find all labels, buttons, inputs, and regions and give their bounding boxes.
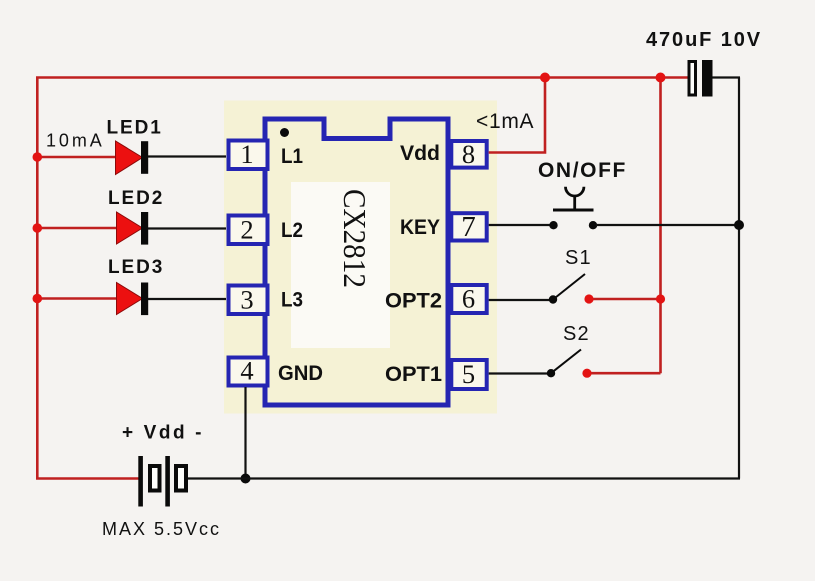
switch S1 lever [553,274,585,300]
svg-text:2: 2 [240,215,253,245]
wire black right rail vertical [738,78,740,479]
svg-text:5: 5 [462,359,475,389]
switch SW1 bar [553,209,594,212]
battery BT1 long plate 2 [165,456,170,507]
svg-text:Vdd: Vdd [400,142,440,165]
node SW1 right contact dot [589,221,597,229]
LED1 cathode bar [141,141,148,174]
LED2 cathode bar [141,212,148,245]
wire black pin 7 to switch SW1 [489,224,550,226]
pin 2 box [229,216,268,245]
wire black LED1 cathode to pin 1 [148,155,226,157]
battery BT1 short plate 2 [176,466,186,491]
LED3 cathode bar [141,283,148,316]
svg-text:S2: S2 [563,323,590,345]
wire black pin 5 to switch S2 [489,372,548,374]
svg-text:+ Vdd -: + Vdd - [122,423,204,444]
wire red stub to LED1 anode [37,156,116,159]
wire black LED2 cathode to pin 2 [148,227,226,229]
node S2 right contact dot [582,369,591,378]
wire black switch SW1 to right rail [596,224,739,226]
pin 5 box [451,360,486,389]
wire red S2 to OPT net [587,372,661,375]
node junction dot GND [241,474,251,484]
node junction dot Vdd top [540,73,550,83]
svg-text:OPT2: OPT2 [385,290,442,313]
pin 7 box [451,213,486,240]
svg-text:8: 8 [462,139,475,169]
node junction dot LED3 [33,294,43,304]
svg-text:L2: L2 [281,219,303,242]
node junction dot right rail KEY [734,220,744,230]
svg-text:LED2: LED2 [108,188,164,209]
switch S2 lever [551,350,581,374]
svg-text:6: 6 [462,284,475,314]
node junction dot S1 net [656,294,665,303]
svg-text:1: 1 [240,139,253,169]
pin 1 box [229,141,268,170]
battery BT1 long plate 1 [138,456,143,507]
pin 6 box [451,285,486,313]
IC U1 body outline with notch [265,119,448,405]
wire red Vdd pin 8 to top net [489,78,545,153]
node SW1 left contact dot [549,221,557,229]
wire black GND pin 4 down [244,387,246,479]
wire red right vertical OPT net [659,78,662,374]
battery BT1 short plate 1 [150,466,160,491]
svg-text:L1: L1 [281,145,303,168]
wire red stub to LED2 anode [37,227,117,230]
svg-text:7: 7 [461,211,476,243]
pin 3 box [229,286,268,315]
wire red stub to LED3 anode [37,297,117,300]
switch SW1 stem [573,196,576,209]
LED1 triangle [116,141,143,175]
IC U1 pin-1 indicator dot [280,128,289,137]
capacitor C1 negative plate [702,60,713,97]
svg-text:MAX 5.5Vcc: MAX 5.5Vcc [102,519,221,539]
svg-text:CX2812: CX2812 [337,189,373,288]
LED2 triangle [117,212,143,244]
svg-text:OPT1: OPT1 [385,363,442,386]
wire black LED3 cathode to pin 3 [148,298,226,300]
wire red S1 to OPT net [589,298,661,301]
wire black bottom rail [188,477,740,479]
wire red left vertical from top corner to battery [37,78,687,479]
node S1 left contact dot [549,295,557,303]
svg-text:ON/OFF: ON/OFF [538,159,627,182]
node junction dot LED2 [33,223,43,233]
svg-text:LED3: LED3 [108,257,164,278]
svg-text:L3: L3 [281,289,303,312]
node junction dot OPT net top [656,73,666,83]
node S2 left contact dot [547,369,555,377]
wire black pin 6 to switch S1 [489,299,550,301]
IC U1 inner white strip [291,182,390,348]
svg-text:4: 4 [240,356,253,386]
wire black capacitor to right rail [713,76,741,78]
switch SW1 push button actuator [566,187,584,196]
svg-text:S1: S1 [565,247,592,269]
svg-text:10mA: 10mA [46,131,105,151]
node S1 right contact dot [584,294,593,303]
capacitor C1 positive plate [689,62,696,96]
svg-text:LED1: LED1 [107,118,163,139]
pin 4 box [229,358,268,386]
IC U1 cream background [224,101,497,414]
pin 8 box [451,141,486,168]
LED3 triangle [117,283,143,315]
svg-text:KEY: KEY [400,216,440,239]
svg-text:470uF 10V: 470uF 10V [646,29,762,51]
svg-text:3: 3 [240,285,253,315]
svg-text:GND: GND [278,362,323,385]
svg-text:<1mA: <1mA [476,110,534,133]
node junction dot LED1 [33,152,43,162]
